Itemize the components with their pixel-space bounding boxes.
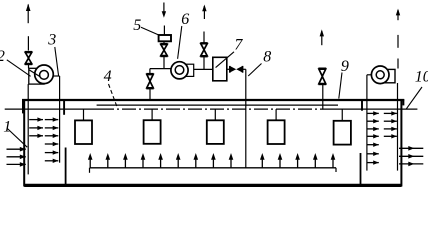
valve below filter 5 xyxy=(160,44,167,57)
plenum baffle left xyxy=(65,148,67,186)
fan 10 impeller circle xyxy=(371,66,389,84)
valve 8 right seat bar xyxy=(242,66,244,73)
manifold up arrow 8 xyxy=(211,153,216,168)
manifold up arrow 14 xyxy=(331,153,336,168)
left channel arrow inner row 3 xyxy=(45,134,59,138)
label 1 xyxy=(3,118,11,135)
recirculation leg elbow xyxy=(149,69,151,74)
tray box 3 xyxy=(207,120,224,144)
left channel arrow outer row 3 xyxy=(29,134,43,138)
fan 3 scroll casing xyxy=(29,68,44,84)
air exit arrow 1 xyxy=(399,146,423,151)
svg-text:10: 10 xyxy=(415,69,428,86)
exhaust arrow (middle, up) xyxy=(202,5,206,20)
right outer wall xyxy=(400,100,402,187)
hanger rod 2 xyxy=(151,109,153,120)
fan 3 hub circle xyxy=(40,71,49,80)
svg-text:5: 5 xyxy=(133,17,141,34)
right channel arrow inner row 6 xyxy=(367,152,379,156)
manifold right end drop xyxy=(335,168,337,172)
label 1 leader xyxy=(7,128,27,147)
pipe valve 2 to fan 3 xyxy=(28,64,30,68)
left channel arrow inner row 1 xyxy=(45,117,59,121)
air manifold line xyxy=(90,167,337,169)
manifold up arrow 12 xyxy=(295,153,300,168)
right channel arrow outer row 4 xyxy=(384,134,397,138)
suction header pipe xyxy=(150,68,171,70)
label 3 xyxy=(47,31,56,48)
svg-text:9: 9 xyxy=(341,58,349,75)
svg-text:7: 7 xyxy=(234,37,243,54)
label 5 xyxy=(133,17,141,34)
manifold up arrow 6 xyxy=(176,153,181,168)
ceiling thick line xyxy=(22,99,404,101)
overhead rail center chain line xyxy=(100,108,330,110)
inner wall bar right xyxy=(361,100,363,111)
left channel arrow inner row 4 xyxy=(45,142,59,146)
ceiling right end hook xyxy=(402,99,404,105)
label 3 leader xyxy=(55,47,59,76)
right channel arrow inner row 2 xyxy=(367,119,379,123)
recirculation valve xyxy=(146,74,153,89)
valve 2 xyxy=(25,52,32,65)
dashed exhaust arrow (far right, up) xyxy=(396,9,400,21)
filter box 5 xyxy=(159,35,171,41)
dashed exhaust line dash 2 xyxy=(397,59,399,69)
left channel arrow outer row 1 xyxy=(29,117,43,121)
valve 8 left seat bar xyxy=(229,66,231,73)
label 10 xyxy=(415,69,428,86)
tray box 2 xyxy=(144,120,161,144)
stack pipe above valve 2 xyxy=(27,36,29,50)
left riser duct right wall xyxy=(59,76,61,163)
floor xyxy=(24,184,401,187)
air exit arrow 2 xyxy=(399,154,423,159)
manifold up arrow 3 xyxy=(123,153,128,168)
ceiling duct lower line xyxy=(97,104,338,106)
blower 6 discharge pipe xyxy=(194,68,213,70)
air entry arrow 2 xyxy=(7,155,26,160)
left channel arrow inner row 2 xyxy=(45,126,59,130)
tray box 1 xyxy=(75,120,92,144)
overhead rail left solid xyxy=(5,108,100,110)
fan 3 scroll cut line xyxy=(29,70,40,77)
manifold up arrow 5 xyxy=(158,153,163,168)
label 7 leader xyxy=(216,52,234,68)
label 9 leader xyxy=(339,73,342,99)
label 9 xyxy=(341,58,349,75)
label 6 xyxy=(181,11,189,28)
fresh air inlet arrow (down) xyxy=(162,3,166,18)
tray box 4 xyxy=(268,120,285,144)
right channel arrow inner row 7 xyxy=(367,160,379,164)
manifold up arrow 10 xyxy=(260,153,265,168)
right channel arrow inner row 3 xyxy=(367,127,379,131)
recirculation leg into duct xyxy=(149,89,151,100)
right channel arrow outer row 3 xyxy=(384,127,397,131)
right riser duct left wall xyxy=(366,75,368,171)
label 8 leader xyxy=(248,64,261,77)
air entry arrow 1 xyxy=(7,147,26,152)
dashed exhaust line dash 1 xyxy=(397,35,399,48)
label 6 leader xyxy=(178,26,182,59)
exhaust branch stub xyxy=(203,32,205,43)
manifold up arrow 4 xyxy=(141,153,146,168)
right channel arrow inner row 1 xyxy=(367,111,379,115)
pipe heater to valve 8 xyxy=(227,68,230,70)
right channel arrow inner row 5 xyxy=(367,143,379,147)
blower 6 hub circle xyxy=(175,66,184,75)
hanger rod 4 xyxy=(275,109,277,120)
fan 10 inlet pipe xyxy=(367,74,372,76)
left channel inner wall xyxy=(27,84,29,174)
heater 7 xyxy=(213,57,227,81)
tray box 5 xyxy=(334,121,351,145)
svg-text:1: 1 xyxy=(3,118,11,135)
overhead rail right solid xyxy=(330,108,417,110)
hanger rod 1 xyxy=(83,109,85,120)
right channel inner wall xyxy=(397,83,399,171)
valve 8 left wedge xyxy=(230,66,236,72)
inner wall bar left xyxy=(63,100,65,115)
exhaust branch riser xyxy=(203,57,205,70)
fan 3 impeller circle xyxy=(35,65,54,84)
label 2 leader xyxy=(7,60,31,77)
label 4 xyxy=(104,68,112,85)
air exit arrow 3 xyxy=(399,162,423,167)
valve 9 drain pipe xyxy=(322,84,324,109)
manifold up arrow 7 xyxy=(194,153,199,168)
valve 9 xyxy=(318,68,326,84)
svg-text:6: 6 xyxy=(181,11,189,28)
right channel arrow outer row 1 xyxy=(384,111,397,115)
blower 6 impeller circle xyxy=(171,62,188,79)
label 2 xyxy=(0,48,5,65)
pipe into filter 5 xyxy=(163,26,165,36)
right channel arrow outer row 2 xyxy=(384,119,397,123)
left channel arrow inner row 6 xyxy=(45,159,59,163)
hanger rod 5 xyxy=(341,109,343,121)
label 10 leader xyxy=(406,87,422,109)
exhaust branch valve xyxy=(200,43,207,57)
zone partition wall xyxy=(245,69,247,167)
label 7 xyxy=(234,37,243,54)
fan 10 hub circle xyxy=(376,71,384,79)
right channel arrow inner row 4 xyxy=(367,134,379,138)
left channel arrow inner row 5 xyxy=(45,150,59,154)
air entry arrow 3 xyxy=(7,162,26,167)
pipe filter 5 to valve xyxy=(163,41,165,43)
left channel arrow outer row 2 xyxy=(29,126,43,130)
plenum baffle right xyxy=(360,153,362,185)
pipe valve to suction header xyxy=(163,56,165,68)
label 8 xyxy=(263,48,271,65)
svg-text:4: 4 xyxy=(104,68,112,85)
label 4 leader (dashed) xyxy=(109,84,118,108)
exhaust arrow (right of center, up) xyxy=(320,29,324,45)
svg-text:2: 2 xyxy=(0,48,5,65)
left outer wall top bar xyxy=(22,99,24,113)
fan 3 outlet pipe xyxy=(53,75,59,77)
valve 8 right wedge xyxy=(236,66,242,72)
blower 6 casing xyxy=(184,64,194,76)
svg-text:3: 3 xyxy=(47,31,56,48)
pipe valve 8 to downcomer xyxy=(243,68,246,70)
manifold up arrow 11 xyxy=(278,153,283,168)
manifold up arrow 1 xyxy=(88,153,93,168)
manifold left end drop xyxy=(89,168,91,173)
manifold up arrow 9 xyxy=(229,153,234,168)
svg-text:8: 8 xyxy=(263,48,271,65)
manifold up arrow 13 xyxy=(313,153,318,168)
fan 10 scroll casing xyxy=(383,69,395,82)
hanger rod 3 xyxy=(214,109,216,120)
exhaust arrow (left stack, up) xyxy=(26,4,31,24)
manifold up arrow 2 xyxy=(106,153,111,168)
label 5 leader xyxy=(141,27,158,35)
left outer wall xyxy=(23,99,25,187)
